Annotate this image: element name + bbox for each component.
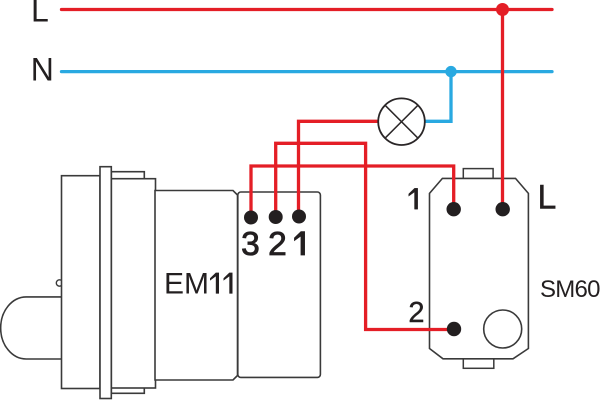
wire N line (neutral bus) — [62, 70, 553, 73]
lamp E1 — [378, 98, 425, 145]
EM11 label digit 1a — [210, 273, 219, 294]
svg-text:EM: EM — [164, 268, 209, 301]
SM60 terminal L dot — [496, 202, 510, 216]
EM11 terminal 2 dot — [269, 210, 283, 224]
EM11 lens (PIR dome) — [1, 297, 61, 359]
svg-text:3: 3 — [241, 226, 260, 263]
SM60 button — [484, 310, 522, 348]
wire L drop to SM60 terminal L — [501, 10, 504, 210]
EM11 terminal box — [238, 192, 321, 377]
junction N node dot — [445, 66, 456, 77]
svg-text:L: L — [538, 178, 557, 216]
EM11 body collar — [111, 179, 155, 388]
wire L line (live bus) — [62, 8, 553, 11]
wire EM11 terminal 2 to SM60 terminal 2 — [276, 143, 452, 329]
EM11 terminal 3 dot — [244, 211, 258, 225]
svg-text:L: L — [31, 0, 49, 29]
EM11 knob detail — [56, 280, 62, 286]
junction L node dot — [496, 3, 509, 16]
svg-text:SM60: SM60 — [540, 276, 600, 303]
wire lamp to EM11 terminal 1 — [299, 121, 379, 217]
EM11 terminal 1 dot — [292, 210, 306, 224]
EM11 bracket strip — [111, 172, 144, 394]
SM60 terminal 2 dot — [447, 322, 461, 336]
EM11 back plate — [62, 176, 101, 389]
EM11 main body — [155, 191, 238, 381]
SM60 pin 1 label — [409, 188, 418, 209]
SM60 top tab — [463, 169, 493, 180]
SM60 bottom tab — [463, 358, 494, 369]
EM11 pin 1 label — [295, 232, 305, 255]
SM60 switch body — [430, 178, 529, 358]
svg-text:2: 2 — [408, 297, 424, 329]
EM11 label digit 1b — [224, 273, 233, 294]
svg-text:N: N — [31, 52, 54, 88]
EM11 mounting bar — [100, 167, 111, 399]
wire N branch to lamp — [425, 72, 452, 122]
svg-text:2: 2 — [268, 226, 287, 263]
SM60 terminal 1 dot — [447, 202, 461, 216]
wire EM11 terminal 3 to SM60 terminal 1 — [251, 166, 454, 217]
